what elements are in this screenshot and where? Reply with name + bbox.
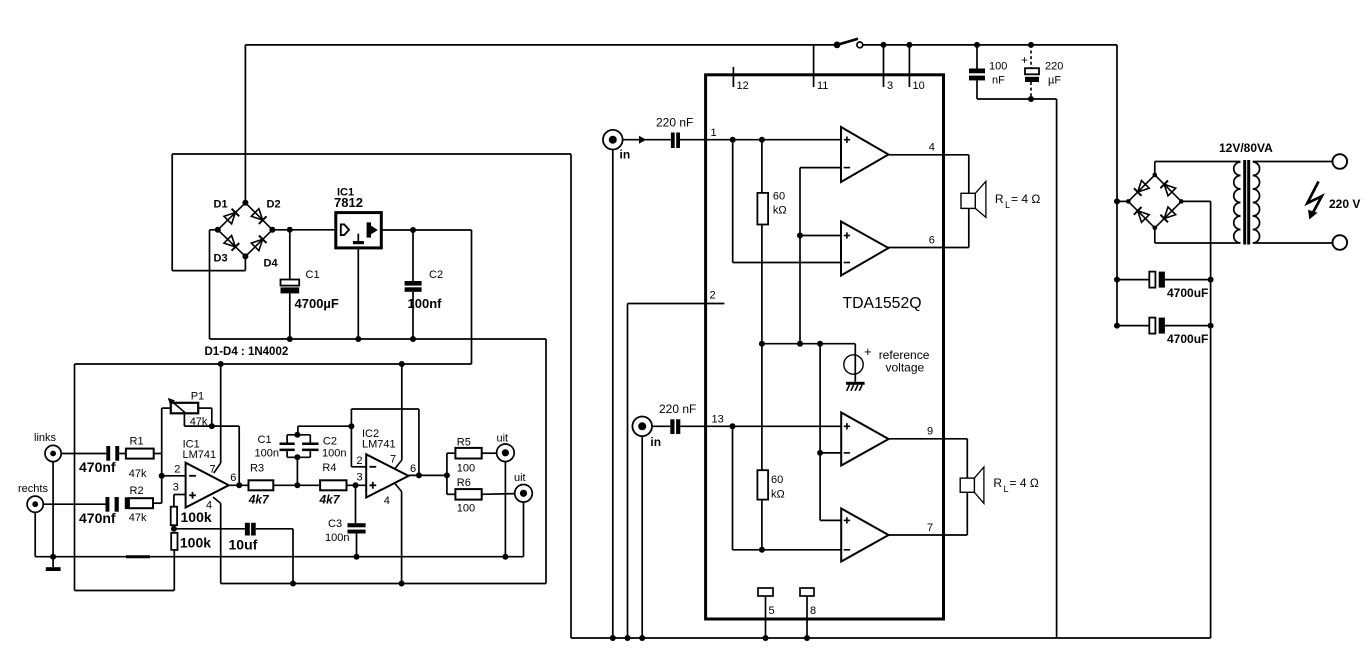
- svg-text:4700µF: 4700µF: [295, 296, 339, 311]
- bridge diode D1: [214, 199, 246, 230]
- wire P1 right lead: [198, 408, 212, 426]
- wire C to pin1: [680, 127, 733, 140]
- wire in2 to C: [652, 425, 670, 427]
- wire PSU 0V rail: [210, 338, 547, 340]
- pin 5 pad: [758, 588, 775, 641]
- svg-text:12: 12: [737, 80, 749, 92]
- wire regulator output: [381, 227, 471, 233]
- svg-text:R1: R1: [130, 436, 144, 448]
- svg-text:L: L: [1004, 484, 1009, 494]
- svg-text:C2: C2: [323, 436, 337, 448]
- wire top 12V rail right segment: [863, 44, 1117, 46]
- wire A4 noninv input: [820, 453, 841, 521]
- capacitor C3 100n: [325, 518, 366, 560]
- svg-text:13: 13: [712, 414, 724, 426]
- svg-text:7812: 7812: [334, 195, 363, 210]
- pin 7 IC1: [210, 364, 221, 476]
- wire AC2 path: [172, 154, 571, 638]
- svg-text:5: 5: [769, 605, 775, 617]
- node pin13: [730, 423, 736, 429]
- resistor R1 47k: [126, 436, 154, 481]
- svg-text:4700uF: 4700uF: [1167, 332, 1208, 346]
- pin 7 IC2: [390, 364, 402, 469]
- node C top: [287, 432, 310, 438]
- wire rechts ground: [34, 512, 36, 556]
- wire pin3 IC2 down: [355, 485, 357, 523]
- wire output pin9: [889, 426, 968, 439]
- op-amp A3: [841, 413, 888, 466]
- svg-text:470nf: 470nf: [79, 510, 116, 526]
- svg-text:100: 100: [457, 503, 475, 515]
- wire 10uf down: [290, 529, 296, 587]
- wire bridge plus: [1181, 201, 1210, 638]
- svg-text:3: 3: [357, 472, 363, 484]
- capacitor 470nf lower: [79, 497, 119, 526]
- svg-text:voltage: voltage: [886, 361, 925, 375]
- wire PSU right edge: [545, 339, 547, 584]
- wire R6 to uit: [482, 493, 515, 496]
- wire top rail corner down: [1116, 45, 1118, 326]
- wire decoupling ground link: [977, 96, 1057, 102]
- svg-text:100n: 100n: [255, 448, 279, 460]
- pin 4 IC2: [384, 484, 405, 587]
- svg-text:3: 3: [173, 482, 179, 494]
- node 100k junction: [171, 525, 177, 532]
- svg-text:100nf: 100nf: [408, 296, 443, 311]
- wire 100k return: [75, 590, 175, 592]
- svg-text:2: 2: [174, 463, 180, 475]
- wire C to R1: [119, 453, 126, 455]
- svg-text:L: L: [1005, 200, 1010, 210]
- svg-text:60: 60: [771, 474, 783, 486]
- label D1-D4 : 1N4002: [205, 346, 289, 358]
- bridge diode D2: [245, 199, 280, 230]
- svg-text:links: links: [34, 432, 57, 444]
- pin 3: [881, 42, 894, 92]
- resistor 60k upper: [757, 140, 786, 344]
- wire in2 ground: [641, 436, 643, 638]
- wire uit2 ground: [523, 502, 525, 557]
- bridge rectifier diode top-left: [1128, 175, 1155, 202]
- bridge diode D4: [245, 230, 278, 270]
- svg-text:R2: R2: [130, 485, 144, 497]
- wire 100k bottom: [173, 550, 175, 591]
- wire pin1 to A2 inv: [733, 140, 841, 263]
- wire bridge+ to regulator: [272, 227, 335, 233]
- svg-text:+: +: [1021, 53, 1028, 67]
- label RL upper: [995, 192, 1040, 210]
- resistor R5 100: [447, 437, 482, 475]
- svg-text:TDA1552Q: TDA1552Q: [843, 295, 922, 312]
- svg-text:R5: R5: [457, 437, 471, 449]
- wire pin13 to amp: [733, 425, 842, 427]
- svg-text:9: 9: [927, 426, 933, 438]
- wire top 12V rail left segment: [245, 44, 837, 46]
- label 220 V: [1329, 197, 1360, 211]
- svg-text:R6: R6: [457, 477, 471, 489]
- svg-text:220 nF: 220 nF: [656, 116, 693, 130]
- node pin2 IC2: [348, 423, 366, 467]
- ground symbol: [46, 557, 61, 571]
- capacitor 220uF electrolytic: [1021, 42, 1063, 99]
- wire reference rail: [759, 341, 855, 347]
- svg-text:C1: C1: [306, 269, 320, 281]
- capacitor C2 100nf: [405, 230, 443, 342]
- svg-text:R3: R3: [250, 463, 264, 475]
- svg-text:6: 6: [410, 463, 416, 475]
- bridge rectifier diode top-right: [1155, 175, 1182, 202]
- svg-text:2: 2: [356, 455, 362, 467]
- transformer T1 12V/80VA: [1219, 141, 1273, 245]
- svg-text:10uf: 10uf: [229, 537, 258, 553]
- svg-text:7: 7: [210, 464, 216, 476]
- svg-text:100n: 100n: [322, 448, 346, 460]
- svg-text:P1: P1: [191, 391, 204, 403]
- bridge rectifier diode bottom-left: [1128, 201, 1155, 228]
- node bridge left: [215, 227, 221, 233]
- svg-text:4k7: 4k7: [319, 493, 341, 507]
- wire IC1 output: [229, 472, 249, 488]
- capacitor 4700uF upper: [1114, 272, 1214, 300]
- svg-text:4: 4: [206, 500, 212, 512]
- svg-text:in: in: [650, 435, 661, 449]
- svg-text:µF: µF: [1048, 75, 1061, 87]
- svg-text:+: +: [864, 344, 872, 359]
- node bridge right: [269, 227, 275, 233]
- label reference voltage: [879, 348, 930, 375]
- wire R3 to node: [273, 482, 300, 488]
- wire bottom rail: [571, 637, 1211, 639]
- svg-text:100k: 100k: [180, 535, 211, 551]
- svg-text:R: R: [995, 192, 1004, 206]
- resistor 100k lower: [171, 533, 211, 551]
- speaker RL lower: [960, 439, 984, 535]
- svg-text:C3: C3: [328, 518, 342, 530]
- terminal 220V top: [1333, 154, 1348, 169]
- wire AC1 from top rail: [244, 45, 246, 203]
- wire output pin4: [889, 142, 969, 155]
- svg-text:10: 10: [913, 80, 925, 92]
- svg-text:C1: C1: [258, 434, 272, 446]
- wire A1 inv input: [797, 168, 841, 344]
- wire signal ground rail: [35, 556, 523, 558]
- svg-text:470nf: 470nf: [79, 459, 116, 475]
- capacitor C2 100n: [302, 435, 346, 460]
- wire preamp +12V rail: [75, 361, 472, 367]
- capacitor 4700uF lower: [1114, 318, 1214, 346]
- wire pin2 down: [627, 304, 629, 639]
- ground reference: [846, 382, 865, 391]
- capacitor 10uf: [174, 523, 293, 553]
- label RL lower: [993, 476, 1038, 494]
- svg-text:nF: nF: [992, 75, 1005, 87]
- svg-text:R: R: [993, 476, 1002, 490]
- svg-text:100: 100: [989, 61, 1007, 73]
- capacitor 470nf upper: [79, 446, 119, 475]
- svg-text:11: 11: [817, 80, 828, 92]
- wire output split: [446, 453, 448, 494]
- svg-text:7: 7: [390, 454, 396, 466]
- capacitor C1 4700uF: [281, 230, 339, 342]
- IC TDA1552Q box: [706, 75, 944, 619]
- wire pin3 IC1: [173, 482, 186, 507]
- svg-text:D3: D3: [214, 253, 228, 265]
- wire links ground: [50, 462, 56, 560]
- resistor R6 100: [447, 477, 482, 515]
- capacitor 220nF lower: [659, 402, 696, 434]
- op-amp IC1 LM741: [183, 439, 229, 508]
- svg-text:47k: 47k: [129, 468, 147, 480]
- svg-text:6: 6: [230, 472, 236, 484]
- svg-text:D4: D4: [264, 258, 279, 270]
- wire secondary bottom: [1253, 242, 1333, 244]
- wire R4 to pin3: [347, 472, 367, 489]
- resistor R4 4k7: [297, 462, 346, 507]
- wire bridge minus to rail: [1114, 173, 1184, 231]
- wire secondary top: [1253, 161, 1333, 163]
- reference voltage source: [844, 344, 872, 382]
- wire pin2 IC1: [162, 463, 186, 476]
- svg-text:100n: 100n: [325, 532, 349, 544]
- pin 8 pad: [800, 588, 816, 641]
- wire uit1 ground: [502, 462, 508, 560]
- svg-text:R4: R4: [322, 462, 336, 474]
- wire inverting node: [159, 408, 165, 503]
- wire in1 arrow: [623, 136, 671, 144]
- resistor 100k upper: [171, 507, 212, 526]
- op-amp A2: [841, 222, 889, 276]
- svg-text:220 nF: 220 nF: [659, 402, 696, 416]
- op-amp A1: [841, 127, 889, 182]
- wire in1 ground: [612, 150, 614, 639]
- op-amp IC2 LM741: [362, 428, 409, 498]
- resistor R2 47k: [125, 485, 153, 524]
- svg-text:60: 60: [773, 191, 785, 203]
- node bridge top: [242, 200, 248, 206]
- wire P1 wiper: [184, 413, 214, 429]
- svg-text:4k7: 4k7: [248, 493, 270, 507]
- wire R1 right: [154, 453, 162, 455]
- svg-text:47k: 47k: [129, 512, 147, 524]
- wire bridge- to 0V: [210, 230, 218, 339]
- pin 4 IC1: [206, 497, 221, 584]
- switch S1: [834, 39, 863, 49]
- node bottom dots: [610, 635, 645, 641]
- svg-text:D1-D4 : 1N4002: D1-D4 : 1N4002: [205, 346, 289, 358]
- svg-text:LM741: LM741: [362, 439, 396, 451]
- svg-text:C2: C2: [429, 269, 443, 281]
- node pin1: [730, 137, 736, 143]
- wire PSU +12V down: [471, 230, 473, 364]
- wire fb top link: [298, 426, 352, 435]
- wire links to C: [61, 453, 106, 455]
- wire preamp 0V return: [221, 583, 546, 585]
- connector uit lower RCA: [514, 472, 532, 502]
- node C bottom: [287, 454, 310, 485]
- svg-text:4700uF: 4700uF: [1167, 286, 1208, 300]
- svg-text:rechts: rechts: [18, 483, 48, 495]
- wire preamp left edge: [74, 364, 76, 591]
- bridge diode D3: [214, 230, 246, 265]
- regulator IC1 7812: [334, 187, 381, 248]
- wire bridge AC2 loop: [172, 154, 245, 271]
- capacitor C1 100n: [255, 434, 295, 460]
- svg-text:kΩ: kΩ: [771, 489, 785, 501]
- svg-text:100: 100: [457, 463, 475, 475]
- connector in lower RCA: [632, 417, 661, 450]
- svg-text:3: 3: [887, 80, 893, 92]
- pin 2 stub: [628, 290, 725, 304]
- pin 10: [906, 42, 924, 92]
- connector uit upper RCA: [497, 433, 515, 462]
- resistor R3 4k7: [248, 463, 274, 507]
- svg-text:12V/80VA: 12V/80VA: [1219, 141, 1273, 155]
- terminal 220V bottom: [1333, 235, 1348, 250]
- wire R2 right: [153, 502, 162, 504]
- svg-text:LM741: LM741: [183, 449, 217, 461]
- wire vertical to bottom rail: [1056, 99, 1058, 638]
- wire A2 noninv input: [800, 235, 841, 237]
- svg-text:8: 8: [810, 605, 816, 617]
- wire IC2 output: [409, 463, 450, 479]
- svg-text:4: 4: [384, 495, 390, 507]
- svg-text:220: 220: [1045, 61, 1063, 73]
- svg-text:7: 7: [927, 522, 933, 534]
- svg-text:= 4 Ω: = 4 Ω: [1010, 476, 1039, 490]
- svg-text:uit: uit: [514, 472, 526, 484]
- pin 12: [733, 67, 748, 92]
- op-amp A4: [841, 509, 888, 562]
- svg-text:uit: uit: [497, 433, 509, 445]
- svg-text:in: in: [620, 148, 631, 162]
- wire R5 to uit: [482, 452, 497, 454]
- bridge rectifier diode bottom-right: [1155, 201, 1182, 228]
- potentiometer P1 47k: [162, 391, 208, 429]
- wire regulator ground: [355, 248, 361, 342]
- wire C to pin13: [680, 414, 732, 427]
- resistor 60k lower: [757, 344, 784, 550]
- connector rechts RCA: [18, 483, 48, 512]
- wire output pin7: [889, 522, 968, 535]
- capacitor 100nF: [969, 42, 1007, 99]
- speaker RL upper: [961, 155, 986, 248]
- wire pin13 to A4 inv: [733, 426, 842, 553]
- wire bridge AC top: [1155, 162, 1241, 175]
- svg-text:D1: D1: [214, 199, 228, 211]
- svg-text:D2: D2: [267, 199, 281, 211]
- node bridge bottom: [242, 253, 248, 259]
- svg-text:4: 4: [929, 142, 935, 154]
- wire A3 inv input: [817, 344, 841, 456]
- wire output pin6: [889, 235, 969, 248]
- capacitor 220nF upper: [656, 116, 693, 149]
- svg-text:= 4 Ω: = 4 Ω: [1011, 192, 1040, 206]
- pin 11: [814, 45, 829, 92]
- wire P1 to output: [212, 426, 239, 485]
- svg-text:kΩ: kΩ: [773, 205, 787, 217]
- wire rechts to C: [43, 503, 105, 505]
- wire pin1 to amp: [733, 137, 841, 143]
- connector in upper RCA: [603, 130, 630, 162]
- wire bridge AC bottom: [1155, 228, 1241, 243]
- svg-text:6: 6: [929, 235, 935, 247]
- wire IC2 feedback loop: [351, 409, 419, 475]
- svg-text:1: 1: [711, 127, 717, 139]
- connector links RCA: [34, 432, 61, 462]
- lightning bolt 220V: [1307, 182, 1322, 220]
- svg-text:220 V: 220 V: [1329, 197, 1360, 211]
- svg-text:2: 2: [710, 290, 716, 302]
